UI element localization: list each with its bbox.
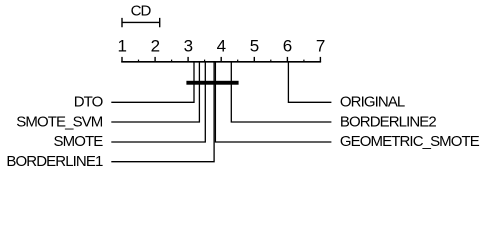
CD interval bracket — [121, 18, 160, 27]
svg-text:BORDERLINE1: BORDERLINE1 — [6, 153, 103, 170]
svg-text:3: 3 — [184, 37, 193, 56]
SMOTE rank line — [111, 62, 205, 142]
SMOTE_SVM rank line — [111, 62, 199, 122]
major ticks — [122, 57, 320, 62]
svg-text:2: 2 — [151, 37, 160, 56]
GEOMETRIC_SMOTE rank line — [215, 62, 331, 142]
BORDERLINE1 rank line — [111, 62, 214, 162]
clique bar (no significant difference group) — [186, 81, 238, 85]
svg-text:6: 6 — [283, 37, 292, 56]
svg-text:SMOTE: SMOTE — [54, 133, 104, 150]
axis line — [121, 61, 321, 63]
svg-text:GEOMETRIC_SMOTE: GEOMETRIC_SMOTE — [340, 133, 480, 150]
minor ticks — [139, 60, 304, 62]
svg-text:1: 1 — [117, 37, 126, 56]
svg-text:7: 7 — [316, 37, 325, 56]
svg-text:5: 5 — [250, 37, 259, 56]
svg-text:SMOTE_SVM: SMOTE_SVM — [16, 113, 102, 130]
svg-text:CD: CD — [131, 3, 152, 20]
svg-text:BORDERLINE2: BORDERLINE2 — [340, 113, 437, 130]
svg-text:4: 4 — [217, 37, 226, 56]
ORIGINAL rank line — [288, 62, 331, 103]
DTO rank line — [111, 62, 194, 103]
svg-text:DTO: DTO — [74, 94, 103, 111]
BORDERLINE2 rank line — [231, 62, 331, 122]
svg-text:ORIGINAL: ORIGINAL — [340, 94, 405, 111]
